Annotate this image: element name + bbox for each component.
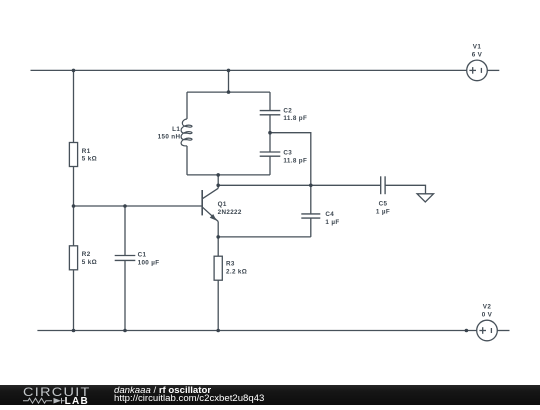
wire L1 bottom lead: [186, 146, 188, 175]
voltage source V2: [477, 304, 498, 341]
voltage source V1: [467, 44, 488, 81]
node emitter: [216, 235, 220, 239]
svg-text:C1: C1: [138, 252, 147, 259]
capacitor C4: [301, 214, 320, 218]
wire C5 to ground: [385, 185, 425, 194]
wire tank top: [187, 91, 270, 93]
node R1 top rail: [72, 69, 76, 73]
wire tank bottom: [187, 174, 270, 176]
svg-text:C3: C3: [283, 150, 292, 157]
svg-text:R2: R2: [82, 251, 91, 258]
svg-text:1 µF: 1 µF: [376, 208, 390, 215]
wire R1 bottom lead to base node: [73, 167, 75, 207]
svg-text:LAB: LAB: [65, 396, 89, 405]
CircuitLab logo: [0, 385, 110, 405]
wire output to C5: [218, 184, 381, 186]
node base C1: [123, 204, 127, 208]
node R3 bottom rail: [216, 329, 220, 333]
svg-text:R3: R3: [226, 261, 235, 268]
svg-text:11.8 pF: 11.8 pF: [283, 157, 307, 164]
capacitor C2: [260, 111, 281, 115]
svg-text:6 V: 6 V: [472, 52, 483, 59]
resistor R1: [69, 143, 97, 167]
wire divider tap: [270, 133, 311, 186]
svg-text:C2: C2: [283, 107, 292, 114]
wire tank feed: [228, 70, 230, 92]
wire C1 top lead: [124, 206, 126, 256]
wire C1 bottom lead: [124, 260, 126, 330]
wire emitter horizontal: [218, 236, 311, 238]
svg-text:0 V: 0 V: [482, 312, 493, 319]
wire top rail: [31, 69, 467, 71]
svg-text:2.2 kΩ: 2.2 kΩ: [226, 268, 247, 275]
footer title text: [114, 387, 264, 404]
wire C4 bottom lead: [310, 218, 312, 237]
node tank feed rail: [227, 69, 231, 73]
svg-text:Q1: Q1: [218, 201, 227, 208]
ground: [417, 194, 433, 202]
wire C2 top lead: [269, 92, 271, 111]
node R2 bottom rail: [72, 329, 76, 333]
wire R1 top lead: [73, 70, 75, 142]
wire C4 top lead: [310, 185, 312, 214]
node C4 top: [309, 184, 313, 188]
wire V1 right stub: [487, 69, 499, 71]
svg-text:L1: L1: [172, 126, 180, 133]
svg-text:100 µF: 100 µF: [138, 259, 160, 266]
node C2 C3 tap: [268, 131, 272, 135]
inductor L1: [158, 119, 192, 146]
footer bar: [0, 385, 540, 405]
wire R2 top lead: [73, 206, 75, 246]
wire C2 bottom lead: [269, 115, 271, 133]
svg-text:V2: V2: [483, 304, 492, 311]
node C1 bottom rail: [123, 329, 127, 333]
svg-text:5 kΩ: 5 kΩ: [82, 156, 97, 163]
wire base: [74, 205, 203, 207]
svg-text:150 nH: 150 nH: [158, 134, 181, 141]
wire C3 top lead: [269, 133, 271, 152]
svg-text:2N2222: 2N2222: [218, 209, 242, 216]
svg-text:V1: V1: [473, 44, 482, 51]
wire R2 bottom lead: [73, 270, 75, 331]
wire emitter lead: [217, 222, 219, 237]
resistor R2: [69, 246, 97, 270]
svg-text:C5: C5: [379, 201, 388, 208]
transistor Q1: [202, 188, 242, 221]
capacitor C5: [381, 176, 385, 194]
node collector output: [216, 184, 220, 188]
wire bottom rail: [37, 330, 476, 332]
resistor R3: [214, 256, 247, 280]
wire R3 top lead: [217, 237, 219, 256]
wire collector lead: [217, 175, 219, 188]
wire V2 right stub: [497, 330, 509, 332]
svg-text:5 kΩ: 5 kΩ: [82, 259, 97, 266]
capacitor C1: [115, 256, 136, 261]
node base R1 R2: [72, 204, 76, 208]
svg-text:C4: C4: [325, 211, 334, 218]
wire C3 bottom lead: [269, 156, 271, 175]
capacitor C3: [260, 152, 281, 156]
wire L1 top lead: [186, 92, 188, 119]
node collector tank bottom: [216, 173, 220, 177]
svg-text:R1: R1: [82, 148, 91, 155]
node tank top: [227, 90, 231, 94]
svg-text:1 µF: 1 µF: [325, 219, 339, 226]
wire R3 bottom lead: [217, 280, 219, 330]
svg-text:11.8 pF: 11.8 pF: [283, 115, 307, 122]
node V2 left: [465, 329, 469, 333]
